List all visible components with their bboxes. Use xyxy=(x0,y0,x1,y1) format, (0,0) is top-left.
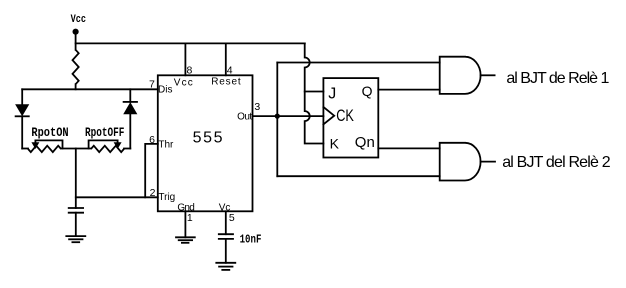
svg-text:Out: Out xyxy=(237,112,252,123)
svg-text:6: 6 xyxy=(149,134,155,146)
svg-text:8: 8 xyxy=(186,65,192,77)
svg-text:Qn: Qn xyxy=(355,134,375,151)
svg-text:1: 1 xyxy=(187,212,193,224)
svg-text:Vcc: Vcc xyxy=(71,14,86,26)
svg-text:Trig: Trig xyxy=(158,192,175,203)
svg-text:10nF: 10nF xyxy=(240,233,262,247)
svg-text:al BJT del Relè 2: al BJT del Relè 2 xyxy=(502,154,610,171)
svg-text:2: 2 xyxy=(150,187,156,199)
svg-text:555: 555 xyxy=(193,130,225,147)
svg-text:3: 3 xyxy=(254,101,260,113)
svg-text:CK: CK xyxy=(336,106,354,125)
svg-text:7: 7 xyxy=(149,79,155,91)
svg-text:4: 4 xyxy=(227,65,233,77)
svg-text:RpotON: RpotON xyxy=(31,125,68,140)
svg-text:Dis: Dis xyxy=(158,84,172,95)
svg-text:K: K xyxy=(330,136,340,152)
svg-text:al BJT de Relè 1: al BJT de Relè 1 xyxy=(506,70,609,87)
svg-text:J: J xyxy=(328,85,336,102)
svg-text:Reset: Reset xyxy=(211,77,241,88)
svg-text:Thr: Thr xyxy=(158,139,174,150)
svg-text:5: 5 xyxy=(229,212,235,224)
svg-text:Vcc: Vcc xyxy=(174,78,193,89)
svg-text:RpotOFF: RpotOFF xyxy=(85,125,125,140)
svg-text:Q: Q xyxy=(362,83,373,99)
